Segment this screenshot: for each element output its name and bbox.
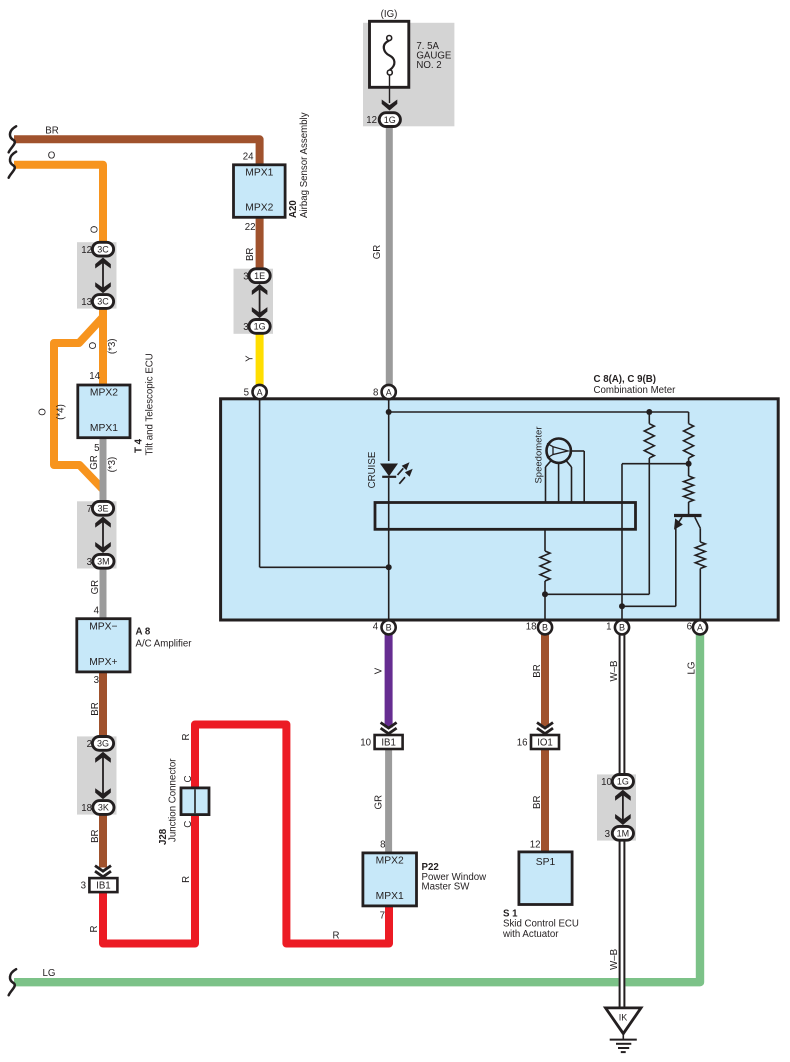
svg-text:7: 7	[380, 911, 385, 922]
svg-text:IB1: IB1	[96, 881, 111, 892]
svg-text:C: C	[183, 776, 194, 783]
svg-text:24: 24	[243, 152, 254, 163]
svg-text:A 8: A 8	[136, 627, 151, 638]
svg-text:3: 3	[94, 675, 99, 686]
svg-text:12: 12	[81, 245, 92, 256]
svg-text:3: 3	[87, 557, 92, 568]
svg-text:R: R	[181, 734, 192, 741]
svg-text:MPX1: MPX1	[376, 891, 404, 902]
svg-text:10: 10	[360, 738, 371, 749]
svg-text:BR: BR	[532, 664, 543, 677]
svg-text:1: 1	[606, 622, 611, 633]
svg-text:MPX2: MPX2	[245, 203, 273, 214]
svg-text:V: V	[373, 667, 384, 674]
svg-text:O: O	[37, 408, 48, 416]
svg-text:3: 3	[81, 881, 86, 892]
svg-text:1E: 1E	[254, 271, 265, 281]
svg-text:Master SW: Master SW	[422, 882, 471, 893]
svg-text:14: 14	[89, 371, 100, 382]
svg-text:(*3): (*3)	[107, 457, 118, 473]
svg-text:Y: Y	[245, 355, 256, 362]
svg-text:8: 8	[373, 387, 378, 398]
svg-text:BR: BR	[245, 248, 256, 261]
svg-text:T 4: T 4	[134, 438, 145, 453]
svg-text:LG: LG	[687, 662, 698, 675]
svg-text:LG: LG	[43, 968, 56, 979]
svg-text:3: 3	[243, 271, 248, 282]
svg-text:1M: 1M	[617, 829, 630, 839]
svg-text:3: 3	[605, 829, 610, 840]
svg-text:1G: 1G	[254, 322, 266, 332]
svg-text:6: 6	[687, 622, 692, 633]
svg-text:IO1: IO1	[537, 738, 553, 749]
svg-text:BR: BR	[45, 126, 58, 137]
svg-text:R: R	[89, 926, 100, 933]
svg-text:2: 2	[87, 739, 92, 750]
svg-text:18: 18	[81, 803, 92, 814]
svg-text:12: 12	[530, 839, 541, 850]
svg-text:MPX+: MPX+	[89, 657, 117, 668]
svg-text:Skid Control ECU: Skid Control ECU	[503, 919, 579, 930]
svg-text:Junction Connector: Junction Connector	[168, 758, 179, 842]
svg-text:MPX2: MPX2	[90, 388, 118, 399]
svg-text:GR: GR	[373, 795, 384, 810]
svg-text:5: 5	[94, 443, 99, 454]
svg-text:O: O	[90, 225, 101, 233]
svg-text:BR: BR	[90, 829, 101, 842]
svg-text:Combination Meter: Combination Meter	[594, 385, 677, 396]
svg-text:with Actuator: with Actuator	[502, 929, 559, 940]
svg-text:1G: 1G	[384, 115, 396, 125]
svg-text:A: A	[386, 387, 392, 397]
svg-text:BR: BR	[532, 795, 543, 808]
svg-text:4: 4	[94, 606, 100, 617]
svg-text:1G: 1G	[617, 777, 629, 787]
svg-text:GR: GR	[372, 245, 383, 260]
svg-text:W–B: W–B	[609, 949, 620, 970]
svg-text:A: A	[697, 623, 703, 633]
svg-text:4: 4	[373, 622, 379, 633]
svg-text:Tilt and Telescopic ECU: Tilt and Telescopic ECU	[145, 353, 156, 455]
svg-text:18: 18	[526, 622, 537, 633]
svg-text:12: 12	[366, 115, 377, 126]
svg-text:B: B	[619, 623, 625, 633]
svg-text:R: R	[181, 876, 192, 883]
svg-text:3G: 3G	[97, 739, 109, 749]
svg-text:C: C	[183, 821, 194, 828]
svg-text:IB1: IB1	[381, 738, 396, 749]
svg-text:O: O	[48, 151, 56, 162]
svg-text:13: 13	[81, 297, 92, 308]
svg-text:NO. 2: NO. 2	[416, 60, 441, 71]
svg-text:MPX−: MPX−	[89, 621, 117, 632]
svg-text:MPX1: MPX1	[245, 168, 273, 179]
svg-text:8: 8	[380, 839, 385, 850]
svg-text:3M: 3M	[97, 557, 110, 567]
svg-text:BR: BR	[90, 702, 101, 715]
svg-text:Speedometer: Speedometer	[534, 426, 545, 483]
svg-text:7: 7	[87, 504, 92, 515]
svg-text:3C: 3C	[97, 297, 109, 307]
svg-text:A20: A20	[288, 200, 299, 218]
svg-text:R: R	[333, 931, 340, 942]
svg-text:3: 3	[243, 322, 248, 333]
svg-text:(IG): (IG)	[381, 9, 398, 20]
svg-text:3C: 3C	[97, 244, 109, 254]
svg-text:A/C Amplifier: A/C Amplifier	[136, 639, 193, 650]
svg-text:W–B: W–B	[609, 661, 620, 682]
svg-text:3E: 3E	[97, 504, 108, 514]
svg-text:C 8(A), C 9(B): C 8(A), C 9(B)	[594, 374, 656, 385]
svg-text:MPX1: MPX1	[90, 423, 118, 434]
svg-text:B: B	[542, 623, 548, 633]
svg-text:IK: IK	[619, 1012, 628, 1022]
svg-text:B: B	[386, 623, 392, 633]
svg-text:(*3): (*3)	[107, 338, 118, 354]
svg-text:O: O	[88, 341, 99, 349]
svg-text:CRUISE: CRUISE	[367, 451, 378, 488]
svg-text:Airbag Sensor Assembly: Airbag Sensor Assembly	[299, 112, 310, 218]
svg-text:10: 10	[601, 777, 612, 788]
svg-text:5: 5	[244, 387, 249, 398]
svg-text:GR: GR	[90, 580, 101, 595]
svg-text:GR: GR	[89, 455, 100, 470]
svg-text:22: 22	[245, 222, 256, 233]
svg-text:MPX2: MPX2	[376, 856, 404, 867]
svg-text:16: 16	[517, 738, 528, 749]
svg-text:SP1: SP1	[536, 857, 556, 868]
svg-text:A: A	[257, 387, 263, 397]
svg-text:(*4): (*4)	[56, 404, 67, 420]
svg-text:3K: 3K	[98, 803, 109, 813]
